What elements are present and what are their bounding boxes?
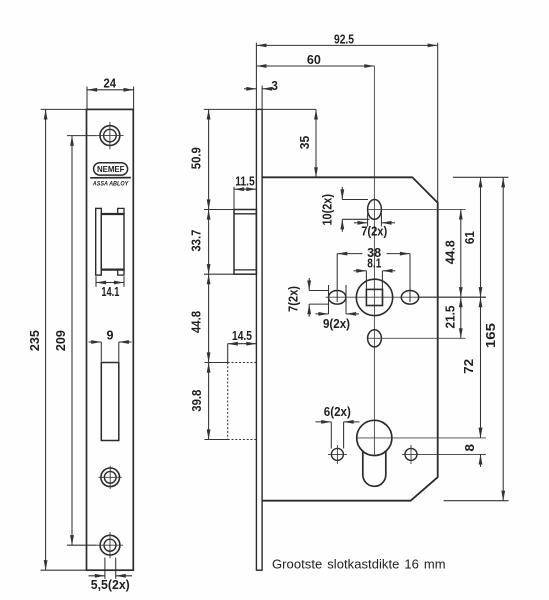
svg-text:9: 9: [107, 329, 114, 343]
dim 21.5: [460, 297, 462, 338]
svg-text:50.9: 50.9: [190, 147, 204, 169]
top oval centerline / extension: [368, 208, 466, 210]
dim 61: [480, 177, 482, 297]
top oval hole: [368, 200, 382, 220]
dim 7(2x) top: [354, 213, 395, 227]
svg-text:7(2x): 7(2x): [361, 224, 387, 238]
below-oval centerline / extension: [368, 337, 466, 339]
svg-text:39.8: 39.8: [190, 390, 204, 412]
svg-text:165: 165: [484, 323, 498, 348]
svg-text:209: 209: [54, 330, 68, 351]
svg-text:6(2x): 6(2x): [324, 405, 351, 419]
euro cylinder hole: [357, 420, 392, 486]
svg-text:3: 3: [271, 79, 278, 93]
svg-text:5,5(2x): 5,5(2x): [91, 577, 130, 592]
svg-text:8: 8: [463, 444, 477, 452]
middle screw hole: [99, 466, 122, 489]
latch cutout: [96, 208, 124, 275]
latch block (edge view): [234, 210, 256, 275]
svg-text:Grootste slotkastdikte 16 mm: Grootste slotkastdikte 16 mm: [272, 557, 446, 572]
svg-text:ASSA ABLOY: ASSA ABLOY: [92, 181, 129, 188]
svg-text:33.7: 33.7: [190, 230, 204, 252]
svg-text:60: 60: [307, 53, 321, 67]
svg-text:14.1: 14.1: [101, 285, 119, 299]
dim 44.8 right: [460, 209, 462, 297]
svg-text:21.5: 21.5: [443, 305, 457, 328]
cylinder centerline / extension: [357, 437, 487, 439]
dim 72: [480, 297, 482, 438]
dim 209: [67, 136, 97, 546]
right side hole: [401, 291, 418, 305]
right dim chain extension lines: [420, 177, 509, 500]
bottom screw hole: [97, 532, 123, 558]
dim 38: [337, 254, 410, 302]
svg-text:8.1: 8.1: [367, 256, 381, 270]
svg-text:NEMEF: NEMEF: [97, 165, 125, 174]
svg-text:11.5: 11.5: [235, 175, 255, 189]
dim 10(2x): [342, 187, 369, 232]
deadbolt block (hidden, dashed): [228, 363, 257, 440]
dim 9(2x): [316, 285, 360, 314]
dim 7(2x) left: [309, 278, 329, 317]
lock case outline: [262, 177, 438, 500]
dim 14.1: [96, 276, 124, 287]
left small hole: [331, 448, 343, 460]
left dim chain: 50.9 / 33.7 / 44.8 / 39.8: [204, 109, 234, 439]
svg-text:92.5: 92.5: [334, 33, 354, 47]
dim 8: [480, 425, 482, 467]
svg-text:7(2x): 7(2x): [287, 286, 301, 312]
svg-text:35: 35: [298, 136, 312, 150]
spindle hole: [356, 279, 392, 315]
deadbolt cutout: [101, 363, 119, 441]
dim 5,5(2x): [89, 558, 133, 579]
dim 235: [41, 109, 87, 570]
top screw hole: [96, 122, 123, 149]
svg-text:235: 235: [28, 330, 42, 351]
svg-text:9(2x): 9(2x): [323, 317, 350, 331]
dim 35: [204, 109, 316, 177]
vertical centerline: [373, 66, 375, 456]
svg-text:72: 72: [462, 359, 476, 374]
horizontal centerline spindle row: [326, 296, 487, 298]
faceplate edge strip: [256, 109, 262, 570]
right small hole: [405, 448, 417, 460]
below-spindle oval hole: [368, 330, 382, 347]
svg-text:14.5: 14.5: [232, 329, 252, 343]
faceplate outline: [87, 109, 134, 570]
svg-text:61: 61: [463, 231, 477, 244]
left side hole: [329, 291, 346, 305]
svg-text:10(2x): 10(2x): [321, 194, 335, 226]
svg-text:24: 24: [104, 76, 117, 90]
NEMEF logo: [90, 163, 131, 188]
svg-text:44.8: 44.8: [190, 311, 204, 333]
dim 165: [502, 177, 504, 500]
svg-text:44.8: 44.8: [443, 240, 457, 264]
